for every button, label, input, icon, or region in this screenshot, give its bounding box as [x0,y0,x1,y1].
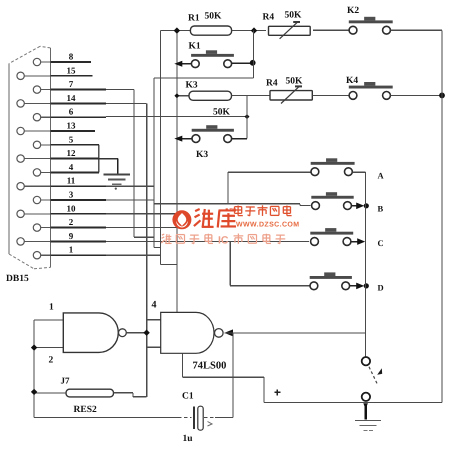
svg-text:D: D [378,282,384,292]
wire V6 R1-right down to row2 node [252,31,254,78]
wire K1 left lead with arrow [178,63,191,65]
pin 2 wire stub [51,227,107,229]
pin 10 wire stub [51,213,107,215]
pin 3 wire stub [51,199,107,201]
capacitor C1 plate left [193,406,195,429]
svg-text:IC: IC [218,235,229,247]
nand gate U1A bubble [119,329,127,337]
ground G1 symbol [104,173,131,175]
node junction right bus row3 [439,93,445,99]
svg-text:WWW.DZSC.COM: WWW.DZSC.COM [236,222,300,229]
wire K1 right lead [232,62,250,64]
wire C1 branch vertical [232,333,234,418]
wire jog V1 to V2 [161,264,177,266]
node junction R1 right [251,27,257,33]
switch K3 pushbutton [192,129,234,132]
pin 1 lead [41,254,51,256]
svg-text:K4: K4 [346,76,358,86]
node junction K1 right on V6 [250,60,256,66]
svg-text:14: 14 [67,93,77,103]
wire V2 from node under R1 down to U1B top [176,31,178,313]
svg-text:50K: 50K [205,12,223,22]
pin 5 contact circle [33,141,40,148]
wire pin10 extension [106,213,177,215]
pin 4 contact circle [33,169,40,176]
wire U1B bottom feedback [181,353,183,377]
wire bus to switch [365,172,367,356]
wire B feed horizontal [154,203,300,205]
wire K3 button left lead with arrow [178,138,192,140]
wire A feed vertical from B feed [227,172,229,204]
svg-text:3: 3 [69,190,74,200]
wire R4b to K4 [312,94,349,96]
pin 11 contact circle [17,183,24,190]
wire B right lead with arrow [351,205,358,207]
pin 4 wire stub [51,171,99,173]
pin 10 lead [24,213,50,215]
svg-text:50K: 50K [285,11,303,21]
pin 15 contact circle [17,72,24,79]
pin 15 lead [24,75,50,77]
pin 9 wire stub [51,240,107,242]
wire A left lead [228,171,311,173]
switch C pushbutton [310,232,353,235]
wire A right lead [352,171,365,173]
switch A pushbutton [311,162,355,165]
potentiometer R4 body [269,26,311,35]
wire pin3 extension to B feed [106,199,154,201]
wire pin2 extension [106,227,177,229]
pin 1 contact circle [33,252,40,259]
svg-text:1u: 1u [183,434,194,444]
wire bracket pins 5-12-4 to ground [98,145,100,173]
svg-text:K3: K3 [196,150,208,160]
wire V3 from K1 node row down [153,78,155,247]
pin 11 lead [24,185,50,187]
pin 3 lead [41,199,51,201]
node junction RES2 left [31,389,37,395]
svg-text:K1: K1 [189,42,201,52]
pin 12 wire stub [51,158,99,160]
node junction V2 top [174,27,180,33]
pin 2 lead [41,227,51,229]
pin 7 lead [41,89,51,91]
resistor K3 body [189,91,232,100]
nand gate U1B bubble [215,329,224,338]
watermark title weiku [194,209,214,227]
wire U1B input stubs [147,319,161,321]
pin 11 wire stub [51,185,107,187]
wire D feed branch [229,241,231,285]
wire K2 to right bus [390,29,442,31]
svg-text:K3: K3 [186,81,198,91]
watermark subtitle electronics market [235,206,243,216]
svg-text:B: B [378,203,384,213]
svg-text:10: 10 [67,203,77,213]
wire U1A output [126,332,144,334]
wire K4 to right bus [390,94,442,96]
svg-text:K2: K2 [347,6,359,16]
switch D pushbutton [310,276,352,279]
pin 9 contact circle [17,238,24,245]
wire C1 right lead [204,417,215,419]
pin 8 contact circle [33,58,40,65]
ground G2 symbol [355,419,381,421]
svg-text:R1: R1 [188,14,200,24]
pin 7 wire stub [51,89,107,91]
svg-text:C: C [378,238,384,248]
svg-text:4: 4 [69,162,74,172]
nand gate U1B body [161,312,214,353]
switch K2 pushbutton [349,20,393,23]
resistor R1 body [190,26,231,35]
marker plus sign [274,391,280,393]
pin 12 lead [24,158,50,160]
svg-text:R4: R4 [263,13,275,23]
pin 8 lead [41,61,51,63]
wire U1A input 2 [34,347,63,349]
pin 5 lead [41,144,51,146]
wire pin11 extension [106,185,154,187]
svg-text:11: 11 [67,176,76,186]
pin 12 contact circle [17,155,24,162]
svg-text:DB15: DB15 [6,274,29,284]
wire pin1 extension [106,254,161,256]
switch K1 pushbutton [191,54,234,57]
wire jog V3 to V1 [154,246,161,248]
svg-text:8: 8 [69,52,74,62]
capacitor C1 plate right [198,406,203,430]
switch S1 bottom contact [362,393,370,401]
svg-text:74LS00: 74LS00 [193,361,227,372]
pin 13 contact circle [17,127,24,134]
svg-text:2: 2 [69,217,74,227]
pin 6 lead [41,116,51,118]
svg-text:A: A [378,170,385,180]
wire RES2 right lead [114,392,134,394]
watermark slogan row [161,234,171,243]
watermark logo circle [172,210,191,229]
wire row1 left segment [161,30,191,32]
wire V1 from R1 row left down [160,31,162,265]
wire X1 vertical row3 to row4 [246,96,248,139]
wire R4 to K2 [313,29,349,31]
wire row3 left segment [177,95,189,97]
wire V5 pin14 extension down to RES2 [146,103,148,396]
pin 13 wire stub [51,130,96,132]
switch S1 actuator dashed [369,367,378,386]
connector J1 DB15 outline [50,48,52,267]
svg-text:1: 1 [69,245,74,255]
svg-text:RES2: RES2 [74,405,97,415]
switch K4 pushbutton [349,86,393,89]
node junction U1A output [143,330,149,336]
nand gate U1B output arrow [224,329,233,336]
node junction row3 on V2 [174,93,179,98]
svg-text:J7: J7 [61,376,71,386]
switch S1 top contact [362,357,370,365]
pin 14 lead [24,102,50,104]
svg-text:R4: R4 [266,79,278,89]
node junction X1 pin6 joins [245,114,250,119]
pin 9 lead [24,240,50,242]
pin 8 wire stub [51,61,92,63]
pin 4 lead [41,171,51,173]
wire pin6 extension to node X1 [106,116,247,118]
wire V4 pin7 extension down [133,90,135,238]
wire K3 resistor to R4b [232,95,271,97]
wire K3 button right lead [232,138,247,140]
resistor RES2 body [66,389,114,397]
svg-text:12: 12 [67,148,77,158]
svg-text:5: 5 [69,134,74,144]
pin 5 wire stub [51,144,99,146]
pin 13 lead [24,130,50,132]
svg-text:C1: C1 [182,392,194,402]
svg-text:4: 4 [152,300,157,311]
node junction input2 [31,344,37,350]
svg-text:1: 1 [49,303,54,313]
svg-text:50K: 50K [286,77,304,87]
svg-text:50K: 50K [213,108,231,118]
wire bottom rail left [34,417,178,419]
pin 2 contact circle [33,224,40,231]
pin 10 contact circle [17,210,24,217]
svg-text:13: 13 [67,121,77,131]
wire pin9 extension to button C [106,240,309,242]
wire U1A input bus vertical [33,320,35,418]
wire row2 node to V3 [154,77,253,79]
pin 14 contact circle [17,100,24,107]
wire U1B output to right bus [224,332,365,334]
svg-text:2: 2 [49,356,54,366]
svg-text:15: 15 [67,65,77,75]
svg-text:7: 7 [69,79,74,89]
wire RES2 left lead [34,392,66,394]
wire U1A input 1 [34,319,63,321]
wire jog V4 to V3 [134,236,154,238]
pin 6 wire stub [51,116,107,118]
wire R1 to R4 [232,30,266,32]
pin 15 wire stub [51,75,93,77]
svg-text:6: 6 [69,107,74,117]
switch S1 cursor arrow [377,368,382,375]
wire D right lead with arrow [350,285,359,287]
pin 1 wire stub [51,254,107,256]
potentiometer R4b body [270,91,312,100]
capacitor C1 polarity mark [208,422,213,427]
wire pin14 extension horizontal [106,102,147,104]
ground G2 stem [363,403,368,409]
wire pin7 extension horizontal [106,89,134,91]
nand gate U1A body [63,313,118,353]
pin 6 contact circle [33,114,40,121]
pin 14 wire stub [51,102,107,104]
pin 7 contact circle [33,86,40,93]
wire C right lead with arrow [351,241,359,243]
pin 3 contact circle [33,196,40,203]
wire bottom right rail [264,402,442,404]
svg-text:9: 9 [69,231,74,241]
wire right bus vertical [441,30,443,402]
switch B pushbutton [311,196,353,199]
